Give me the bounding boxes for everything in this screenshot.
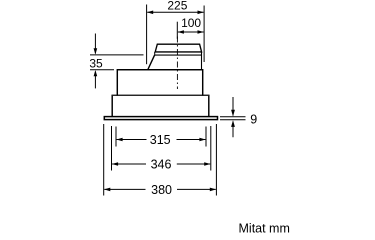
- duct coupling lip band bottom: [155, 54, 202, 56]
- duct coupling lip band left end: [154, 52, 156, 55]
- dim 35 bottom reference line: [90, 69, 114, 71]
- dim 35 lower arrow: [94, 72, 96, 89]
- dim 100 left arrow: [178, 30, 184, 34]
- svg-text:315: 315: [150, 133, 171, 147]
- step ledge line: [112, 94, 209, 96]
- dim 380 right extension line: [215, 124, 217, 196]
- dim 9 top reference line: [220, 116, 246, 118]
- dim 315 line: [117, 139, 147, 141]
- dim 225 line: [147, 11, 203, 13]
- dim 225 left arrow: [147, 11, 153, 15]
- svg-text:Mitat mm: Mitat mm: [239, 222, 290, 234]
- svg-text:346: 346: [151, 158, 172, 172]
- dim 225 left extension line: [146, 5, 148, 65]
- centerline: [176, 37, 178, 90]
- dim 9 bottom reference line: [220, 119, 246, 121]
- dim 9 lower arrow: [232, 122, 234, 138]
- hood bottom plate (380 mm panel): [104, 117, 217, 120]
- dim 315 right extension line: [205, 127, 207, 147]
- svg-text:380: 380: [151, 183, 172, 197]
- dim 315 right arrow: [199, 138, 205, 142]
- dim 100 line: [178, 31, 204, 33]
- dim 225 right arrow: [198, 11, 204, 15]
- dim 100 extension (centerline solid top): [176, 22, 178, 39]
- svg-text:9: 9: [250, 113, 257, 127]
- dim 35 upper arrow: [94, 34, 96, 54]
- dim 225 right extension line: [203, 6, 205, 63]
- dim 380 right arrow: [210, 188, 216, 192]
- dim 9 upper arrow: [232, 97, 234, 116]
- dim 346 line: [112, 163, 146, 165]
- hood upper body tier: [117, 70, 202, 96]
- dim 346 right arrow: [204, 162, 210, 166]
- dim 380 left extension line: [103, 124, 105, 196]
- body top surface line: [117, 69, 202, 71]
- dim 380 left arrow: [104, 188, 110, 192]
- duct coupling lip band top: [155, 51, 202, 53]
- svg-text:100: 100: [181, 16, 201, 30]
- duct collar: [155, 44, 201, 52]
- hood lower body tier: [112, 95, 209, 116]
- dim 315 left extension line: [115, 127, 117, 147]
- dim 315 left arrow: [116, 138, 122, 142]
- svg-text:225: 225: [167, 0, 187, 13]
- dim 380 line: [104, 188, 145, 190]
- transition diagonal: [148, 55, 155, 70]
- duct neck right side: [201, 52, 203, 70]
- dim 35 top reference line: [90, 54, 144, 56]
- svg-text:35: 35: [89, 57, 103, 71]
- dim 100 right arrow: [198, 30, 204, 34]
- dim 346 left extension line: [111, 126, 113, 171]
- dim 346 left arrow: [112, 162, 118, 166]
- dim 346 right extension line: [210, 126, 212, 171]
